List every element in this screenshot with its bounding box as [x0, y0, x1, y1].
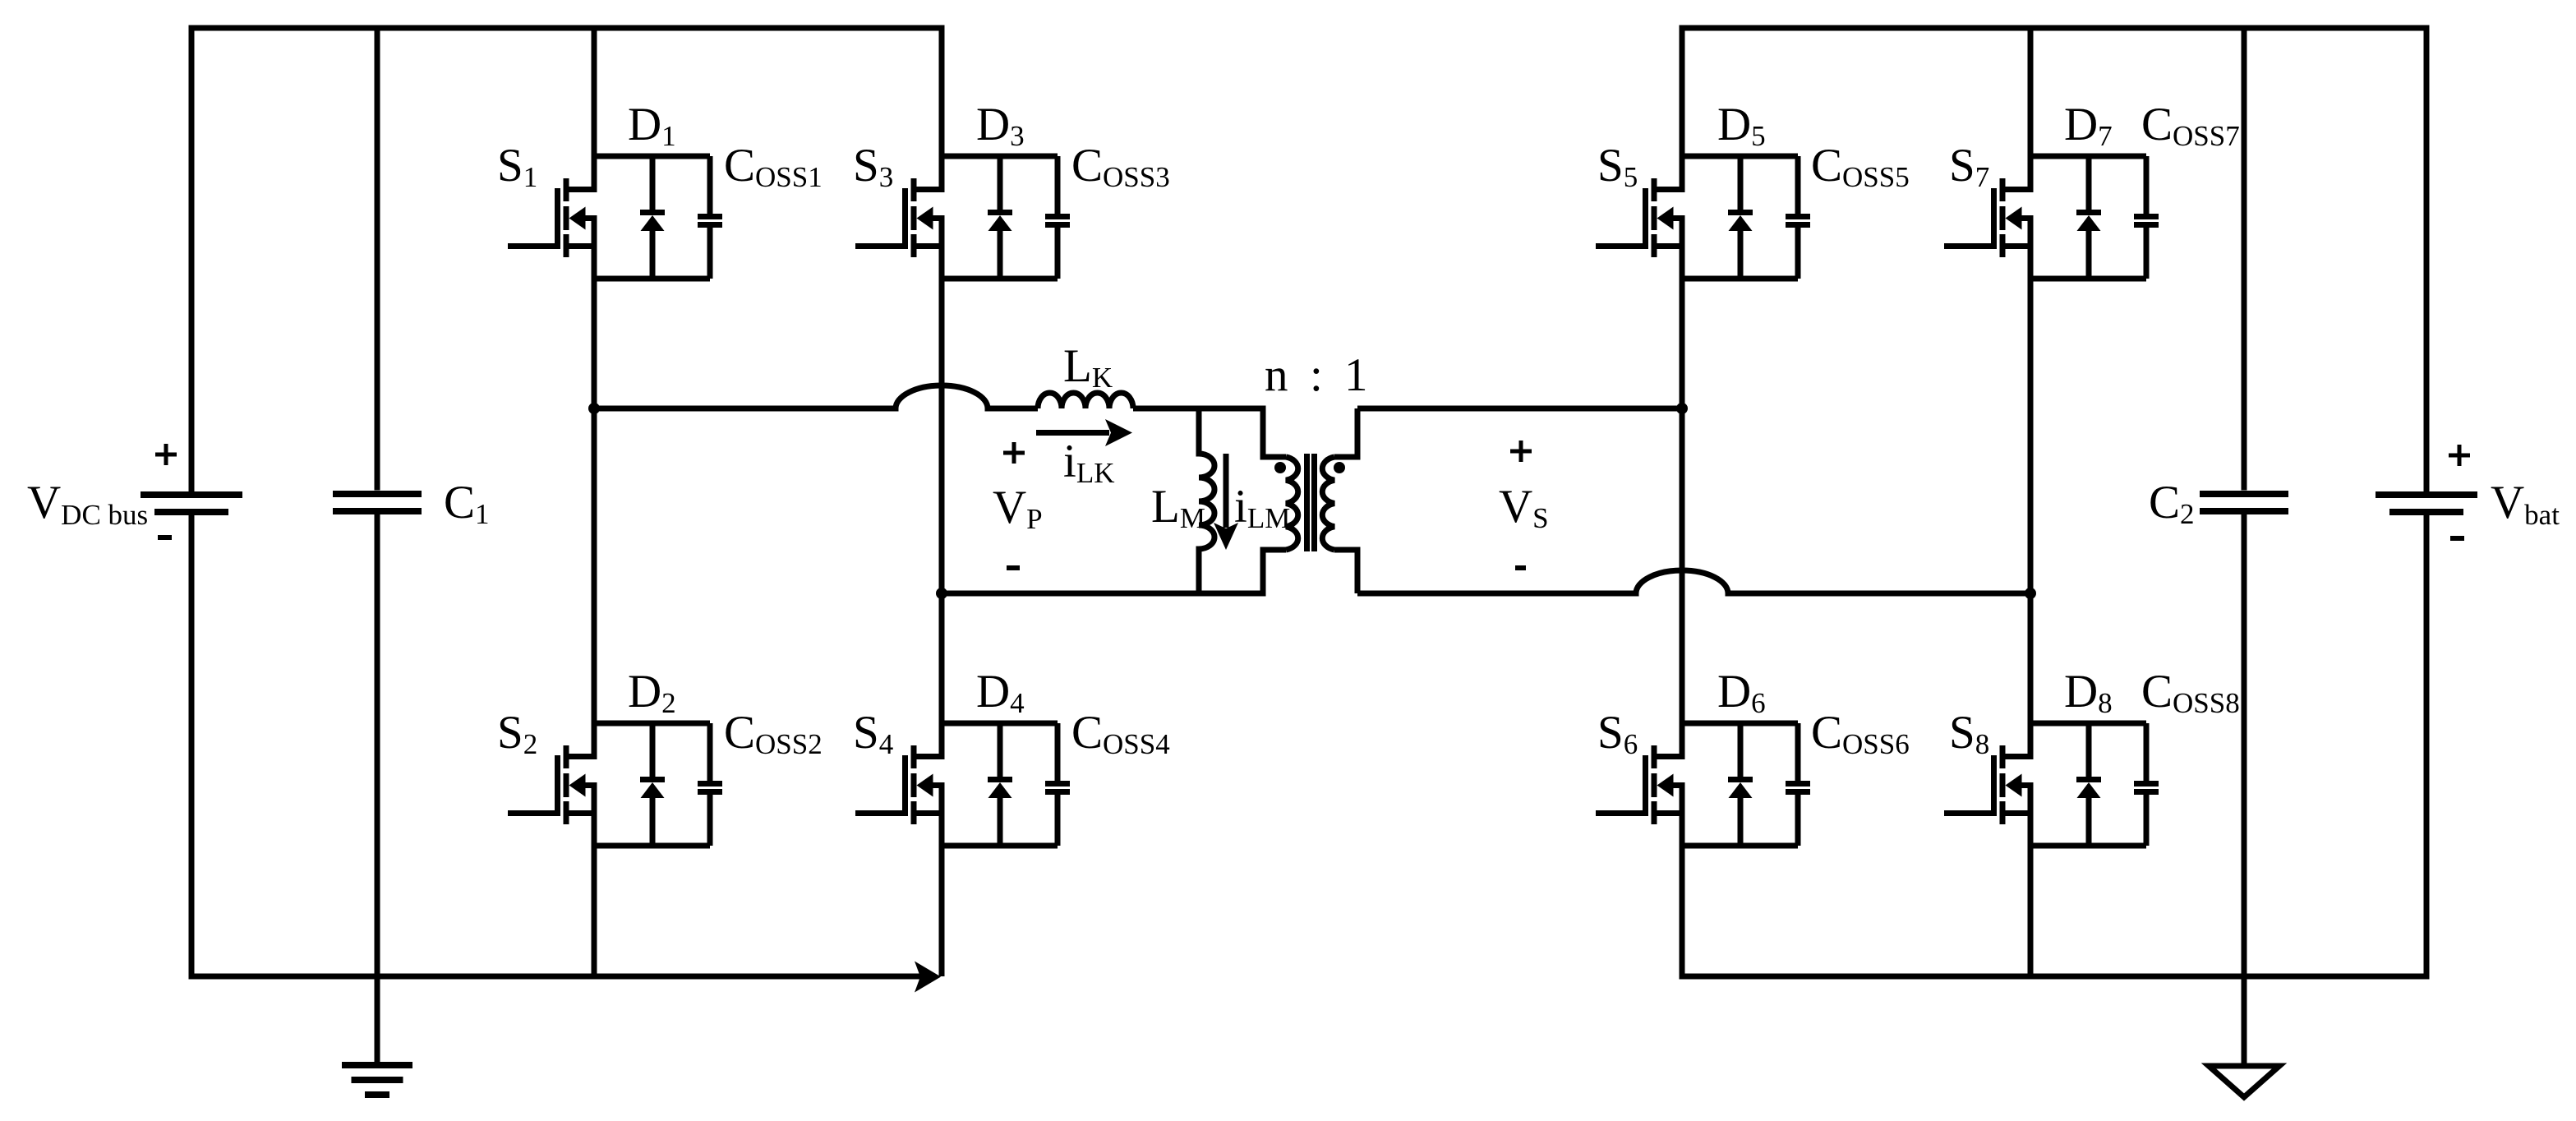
current arrow i_LM	[1223, 454, 1229, 528]
node B junction dot	[936, 588, 947, 599]
wire right outer vertical (V_bat branch)	[2424, 28, 2430, 976]
diode D5 with snubber box	[1682, 156, 1798, 279]
wire bottom rail left	[191, 974, 933, 980]
current arrow i_LK	[1036, 430, 1109, 436]
wire transformer secondary bottom to node D (with hop over leg C)	[1357, 570, 2030, 593]
diode D3 with snubber box	[942, 156, 1058, 279]
node C junction dot	[1676, 403, 1688, 414]
diode D8 with snubber box	[2030, 723, 2146, 846]
node A junction dot	[588, 403, 600, 414]
label + (V_S)	[1510, 441, 1532, 462]
transformer primary winding	[1286, 457, 1298, 550]
battery V_DC bus	[141, 491, 242, 498]
label + (V_P)	[1003, 442, 1025, 464]
wire bottom rail right	[1682, 974, 2426, 980]
capacitor C_OSS2	[707, 723, 713, 846]
chassis ground (right, open triangle)	[2209, 1066, 2279, 1097]
label - (V_P)	[1007, 565, 1020, 570]
wire left outer vertical (V_DC bus branch)	[189, 28, 195, 976]
svg-text::: :	[1310, 349, 1323, 401]
wire top rail right	[1682, 25, 2426, 31]
capacitor C_OSS5	[1795, 156, 1801, 279]
diode D6 with snubber box	[1682, 723, 1798, 846]
diode D1 with snubber box	[594, 156, 710, 279]
label - (V_bat)	[2450, 536, 2464, 541]
wire node B to transformer primary bottom	[942, 550, 1286, 593]
transistor S2 (MOSFET)	[508, 745, 594, 824]
label - (V_S)	[1515, 565, 1526, 570]
transformer core	[1304, 454, 1310, 551]
transistor S7 (MOSFET)	[1944, 178, 2030, 257]
inductor L_M	[1199, 408, 1214, 593]
diode D7 with snubber box	[2030, 156, 2146, 279]
polarity dot secondary	[1334, 462, 1345, 473]
capacitor C_OSS6	[1795, 723, 1801, 846]
diode D4 with snubber box	[942, 723, 1058, 846]
label - (V_DC bus)	[158, 535, 172, 540]
wire bridge leg B (S3/S4)	[939, 28, 945, 976]
wire bridge leg A (S1/S2)	[592, 28, 597, 976]
transistor S6 (MOSFET)	[1596, 745, 1682, 824]
polarity dot primary	[1274, 462, 1286, 473]
wire node A to transformer (with hop over leg B)	[594, 385, 1038, 408]
wire bridge leg C (S5/S6)	[1680, 28, 1685, 976]
earth ground (left)	[342, 1062, 412, 1098]
capacitor C_OSS8	[2144, 723, 2150, 846]
label + (V_DC bus)	[155, 444, 177, 465]
capacitor C_OSS3	[1055, 156, 1061, 279]
capacitor C1	[375, 28, 380, 1065]
capacitor C_OSS1	[707, 156, 713, 279]
capacitor C2	[2242, 28, 2247, 1066]
capacitor C_OSS4	[1055, 723, 1061, 846]
wire bridge leg D (S7/S8)	[2028, 28, 2034, 976]
inductor L_K	[1038, 393, 1133, 408]
wire transformer secondary top to node C	[1357, 406, 1682, 412]
transistor S8 (MOSFET)	[1944, 745, 2030, 824]
svg-text:1: 1	[1344, 349, 1368, 401]
svg-text:n: n	[1265, 349, 1288, 401]
diode D2 with snubber box	[594, 723, 710, 846]
transistor S3 (MOSFET)	[855, 178, 942, 257]
wire top rail left	[191, 25, 942, 31]
transistor S1 (MOSFET)	[508, 178, 594, 257]
transistor S4 (MOSFET)	[855, 745, 942, 824]
transistor S5 (MOSFET)	[1596, 178, 1682, 257]
capacitor C_OSS7	[2144, 156, 2150, 279]
node D junction dot	[2025, 588, 2036, 599]
transformer secondary winding	[1322, 457, 1334, 550]
label + (V_bat)	[2449, 445, 2470, 466]
battery V_bat	[2376, 491, 2477, 498]
arrowhead on bottom rail at leg B	[915, 962, 941, 993]
wire transformer secondary jogs	[1334, 408, 1357, 593]
